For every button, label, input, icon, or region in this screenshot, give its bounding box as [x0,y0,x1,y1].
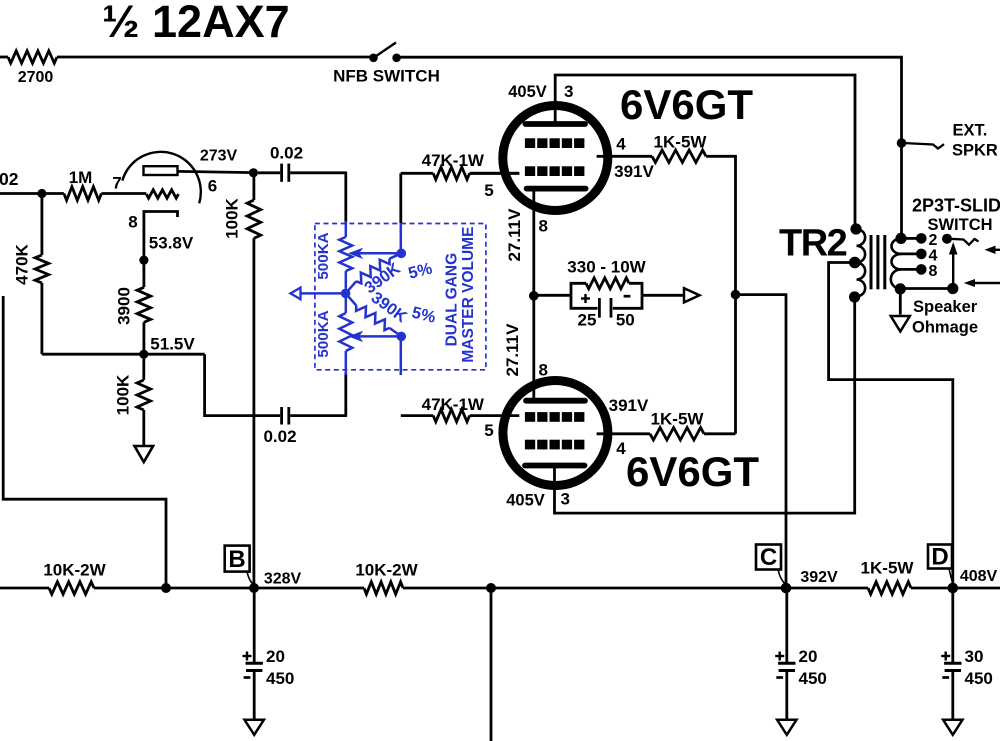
wire pot bottom to box edge [345,351,348,375]
label pin 3 bottom [561,490,570,509]
label tap 2 [929,232,938,249]
potentiometer 500KA bottom element [339,313,352,351]
wiper top 500KA [348,248,401,259]
svg-text:Speaker: Speaker [913,298,978,316]
svg-text:4: 4 [616,135,626,154]
triode V2 plate box [144,166,178,175]
label 450 D cap [965,669,993,688]
wire 1K-5W to right rail [706,156,736,434]
label SPKR [952,142,998,160]
svg-text:½ 12AX7: ½ 12AX7 [102,0,290,47]
svg-text:1K-5W: 1K-5W [861,559,915,578]
svg-text:450: 450 [266,669,294,688]
svg-text:8: 8 [929,263,938,280]
label 408V [960,568,998,585]
svg-text:47K-1W: 47K-1W [422,151,485,170]
label 53.8V [149,234,194,253]
wire blue pot column top [345,221,348,237]
transformer TR2 core [871,235,885,289]
label 1M [69,168,93,187]
svg-text:8: 8 [128,213,137,232]
svg-text:10K-2W: 10K-2W [355,561,418,580]
switch wiper arrow up [949,242,958,289]
svg-text:DUAL GANG: DUAL GANG [443,253,460,347]
label 2700 [18,69,54,86]
wire wiper bottom to 47K-1W bottom [401,414,433,417]
wire junction to node C rail [736,295,787,588]
svg-text:391V: 391V [609,396,649,415]
label minus B cap [244,676,251,679]
wire 47K bottom to pin5 bottom [470,414,520,417]
node tap 8 [916,264,927,275]
node 53.8V [139,256,148,265]
svg-text:0.02: 0.02 [270,144,303,163]
wire secondary tap 2 [901,237,917,240]
label pin 8 bottom [539,361,548,380]
capacitor 20-450 node B [245,588,264,735]
wire left stub to R 2700 [0,56,8,59]
tube V1 6V6GT envelope [503,106,608,211]
resistor 100K plate load [247,173,261,588]
triode V2 grid [146,190,178,198]
label pin 5 bottom [484,421,493,440]
svg-text:4: 4 [616,439,626,458]
label plus B cap [243,652,252,661]
tube V1 control grid [525,166,584,176]
label pin 4 bottom [616,439,626,458]
wire top 6V6 plate to TR2 primary top [555,75,855,229]
svg-text:6V6GT: 6V6GT [620,81,753,128]
triode V2 cathode [144,212,178,261]
svg-text:27.11V: 27.11V [503,323,522,377]
label 27.11V bottom [503,323,522,377]
svg-text:405V: 405V [506,492,545,510]
svg-text:2P3T-SLIDE: 2P3T-SLIDE [912,196,1000,216]
wire V1 cathode to V3 cathode [532,190,535,399]
capacitor 0.02 bottom [282,407,346,425]
label 0.02 bottom [263,427,296,446]
wire V1 pin 4 screen lead [597,155,652,158]
label node B box [225,546,254,585]
node bus center [486,583,496,593]
svg-text:0.02: 0.02 [263,427,296,446]
svg-text:100K: 100K [223,197,242,238]
svg-text:8: 8 [539,361,548,380]
label 47K-1W top [422,151,485,170]
label 50 [616,311,635,330]
label EXT. [953,122,988,140]
svg-text:2700: 2700 [18,69,54,86]
svg-text:500KA: 500KA [315,310,332,357]
tube V1 plate [526,121,586,127]
svg-text:1M: 1M [69,168,93,187]
label plus C cap [775,652,784,661]
label plus D cap [941,652,950,661]
node switch common [947,283,958,294]
label 391V top [614,162,654,181]
label pin 6 [208,177,217,196]
node TR2 primary center tap [849,257,861,269]
wire V2 plate pin 6 to 273V node [178,171,254,172]
tube V1 cathode [527,186,586,192]
label 500KA bottom [315,310,332,357]
svg-text:392V: 392V [800,569,838,586]
tube V3 control grid [525,412,584,422]
svg-text:D: D [931,544,948,571]
label 25 [578,311,597,330]
label 5% top [407,259,435,282]
svg-text:5: 5 [484,421,493,440]
svg-text:02: 02 [0,169,19,189]
label 6V6GT top [620,81,753,128]
label 30 D cap [965,647,984,666]
wire input to 1M [0,192,64,195]
label 5% bottom [410,304,438,327]
wire switch pole break [947,239,979,245]
svg-text:51.5V: 51.5V [150,335,195,354]
node TR2 primary top [850,223,861,234]
label 1/2 12AX7 [102,0,290,47]
label 2P3T-SLIDE [912,196,1000,216]
node 51.5V [139,350,148,359]
node TR2 secondary bottom [895,283,906,294]
resistor 10K-2W left [49,582,94,594]
wire 2700 to NFB switch [57,56,370,59]
wire 47K top to pin5 [470,172,520,175]
label 10K-2W left [43,561,106,580]
tube V3 screen grid [525,440,584,450]
label 1K-5W top [654,133,708,152]
svg-text:SPKR: SPKR [952,142,998,160]
resistor 47K-1W bottom [433,409,469,421]
tube V1 screen grid [525,138,584,148]
label 390K bottom [368,289,411,327]
wire pot top to center tap [345,271,348,313]
node screens rail junction [731,290,741,300]
wire 0.02 bottom to master volume bottom [344,373,347,417]
wiper bottom 500KA [348,331,401,342]
node master volume center [341,289,351,299]
wire 330 network to arrow [642,294,684,297]
node tap 2 [916,233,927,244]
svg-text:30: 30 [965,647,984,666]
transformer TR2 primary winding [857,229,866,296]
tube V3 plate [525,463,585,469]
ground speaker return [891,316,910,332]
svg-text:27.11V: 27.11V [505,208,524,262]
label 1K-5W bottom [651,410,705,429]
triode V2 envelope arc [122,152,201,203]
label plus 25-50 [581,294,590,303]
label 20 C cap [799,647,818,666]
label node D box [928,544,953,584]
capacitor 0.02 top [258,164,346,182]
svg-text:TR2: TR2 [779,223,847,265]
label node C box [756,544,786,585]
label NFB SWITCH [333,67,440,86]
wire feedback takeoff L [3,296,166,588]
label minus C cap [776,676,783,679]
potentiometer 500KA top element [339,237,352,271]
label 100K plate load [223,197,242,238]
svg-text:20: 20 [799,647,818,666]
svg-text:1K-5W: 1K-5W [654,133,708,152]
svg-text:7: 7 [112,174,121,193]
svg-text:SWITCH: SWITCH [927,216,992,234]
svg-text:470K: 470K [13,243,32,284]
node wiper bottom [397,332,407,342]
label 10K-2W mid [355,561,418,580]
label 450 C cap [799,669,827,688]
label tap 4 [929,248,938,265]
node D [948,583,959,594]
svg-text:25: 25 [578,311,597,330]
svg-text:47K-1W: 47K-1W [422,395,485,414]
svg-text:405V: 405V [508,83,547,101]
label 02 input [0,169,19,189]
node wiper top [397,249,407,259]
capacitor 20-450 node C [777,588,796,735]
svg-text:330 - 10W: 330 - 10W [567,258,646,277]
wire secondary bottom to switch [900,287,948,290]
node tap 4 [916,249,927,260]
svg-text:408V: 408V [960,568,998,585]
wire coupling cap to master volume top [344,172,347,224]
label 450 B cap [266,669,294,688]
svg-text:NFB SWITCH: NFB SWITCH [333,67,440,86]
svg-text:C: C [760,544,777,571]
label minus D cap [942,676,949,679]
label 405V top [508,83,547,101]
resistor 330-10W with bypass cap box [571,278,642,318]
svg-text:8: 8 [539,217,548,236]
label 20 B cap [266,647,285,666]
label 3900 [115,287,134,325]
node input junction [37,189,46,198]
ground under 100K [135,446,154,462]
capacitor 30-450 node D [943,588,962,735]
resistor 1K-5W top [652,150,706,162]
svg-text:500KA: 500KA [315,232,332,279]
svg-text:EXT.: EXT. [953,122,988,140]
label 328V [264,571,302,588]
label MASTER VOLUME [460,227,477,363]
label 500KA top [315,232,332,279]
svg-text:50: 50 [616,311,635,330]
svg-text:3900: 3900 [115,287,134,325]
svg-text:MASTER VOLUME: MASTER VOLUME [460,227,477,363]
svg-text:4: 4 [929,248,938,265]
label SWITCH [927,216,992,234]
wire secondary tap 8 [900,268,918,271]
wire grid to 1M [101,192,146,195]
wire to speaker jack return [964,279,1000,287]
svg-text:10K-2W: 10K-2W [43,561,106,580]
resistor 2700 [8,51,57,63]
svg-text:450: 450 [965,669,993,688]
wire V3 plate to TR2 primary bottom [555,297,855,513]
connector arrow NFB return [291,288,301,300]
wire NFB switch to EXT SPKR line [397,57,902,238]
label pin 7 [112,174,121,193]
wire 51.5V to 0.02 bottom [205,354,281,415]
node switch pole [942,234,952,244]
label 405V bottom [506,492,545,510]
svg-text:3: 3 [561,490,570,509]
resistor 3900 [137,260,151,354]
label pin 5 top [484,181,493,200]
resistor 47K-1W top [433,167,469,179]
label 0.02 top [270,144,303,163]
wire 1K-5W bottom to rail [704,432,736,435]
label 391V bottom [609,396,649,415]
resistor 470K [35,194,49,355]
resistor 390K bottom [346,293,402,336]
label 470K [13,243,32,284]
master volume dashed box [315,224,486,370]
svg-text:328V: 328V [264,571,302,588]
wire center tap to NFB arrow [300,292,346,295]
resistor 100K cathode [137,354,151,446]
wire EXT SPKR break [903,143,944,149]
wire secondary bottom to ground [899,289,902,315]
svg-text:273V: 273V [200,148,238,165]
label tap 8 [929,263,938,280]
label TR2 [779,223,847,265]
connector arrow cathode net [684,288,700,302]
label DUAL GANG [443,253,460,347]
svg-text:391V: 391V [614,162,654,181]
wire junction to 330 network [534,294,571,297]
label pin 3 top [564,82,573,101]
label 27.11V top [505,208,524,262]
svg-text:100K: 100K [114,374,133,415]
resistor 390K top [346,253,402,293]
wire center tap to B+ feed [829,263,953,584]
wire wiper top to 47K [400,222,403,253]
transformer TR2 secondary winding [891,238,901,289]
label pin 8 triode [128,213,137,232]
svg-text:53.8V: 53.8V [149,234,194,253]
resistor 1M [64,187,102,201]
label 47K-1W bottom [422,395,485,414]
wire secondary tap 4 [900,252,918,255]
svg-text:5: 5 [484,181,493,200]
wire to speaker jack hot [985,246,1000,254]
wire V3 pin 4 screen lead [597,432,650,435]
switch NFB SWITCH [369,43,401,63]
label 1K-5W bus [861,559,915,578]
label 273V [200,148,238,165]
resistor 10K-2W mid [364,582,403,594]
wire wiper top to 47K-1W top [401,173,433,223]
resistor 1K-5W bus [868,582,911,594]
tube V3 cathode [526,398,585,404]
label 392V [800,569,838,586]
node bus left [161,583,171,593]
svg-text:6: 6 [208,177,217,196]
label Speaker [913,298,978,316]
svg-text:B: B [228,546,245,573]
tube V3 6V6GT envelope [503,381,608,486]
label 330 - 10W [567,258,646,277]
svg-text:20: 20 [266,647,285,666]
wire bottom bus [0,587,1000,590]
label 100K cathode [114,374,133,415]
svg-text:Ohmage: Ohmage [912,319,978,337]
svg-text:450: 450 [799,669,827,688]
node TR2 primary bottom [849,291,860,302]
label 390K top [361,260,404,298]
wire bus center down [490,588,493,741]
label Ohmage [912,319,978,337]
svg-text:2: 2 [929,232,938,249]
node C [781,583,792,594]
wire 51.5V rail [42,353,205,356]
label 51.5V [150,335,195,354]
wire V1 pin 5 grid lead [470,172,519,175]
wire wiper bottom down [400,336,403,375]
node B [249,583,259,593]
node cathodes junction [529,291,539,301]
svg-text:6V6GT: 6V6GT [626,448,759,495]
svg-text:1K-5W: 1K-5W [651,410,705,429]
node EXT SPKR tap [897,138,907,148]
node TR2 secondary top [895,233,906,244]
label minus 25-50 [624,295,631,298]
label pin 8 top [539,217,548,236]
node 273V [249,168,258,177]
label 6V6GT bottom [626,448,759,495]
label pin 4 top [616,135,626,154]
resistor 1K-5W bottom [650,428,704,440]
svg-text:3: 3 [564,82,573,101]
